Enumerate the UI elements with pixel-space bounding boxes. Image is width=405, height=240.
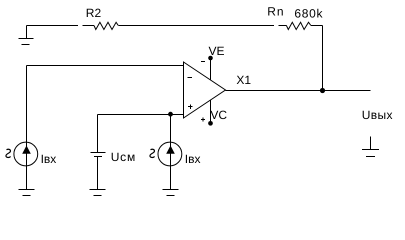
pin VC	[201, 100, 213, 126]
plus sign inside	[188, 106, 193, 108]
svg-text:X1: X1	[236, 73, 251, 87]
svg-text:VC: VC	[210, 108, 227, 122]
current source I2 (right Ivh)	[158, 115, 182, 167]
svg-text:R2: R2	[86, 6, 102, 20]
ground G5 (below I2)	[163, 166, 179, 196]
wire top rail left segment	[27, 25, 79, 27]
squiggle of I1	[6, 149, 11, 157]
wire top rail middle segment	[130, 25, 274, 27]
svg-text:Rn: Rn	[267, 4, 284, 18]
svg-text:Iвх: Iвх	[185, 152, 201, 166]
pin VE	[201, 56, 213, 80]
current source I1 (left Ivh)	[14, 142, 38, 166]
ground G2 (output reference)	[362, 137, 379, 157]
node output junction	[320, 88, 325, 93]
wire non-inverting input rail	[98, 114, 184, 116]
svg-text:VE: VE	[209, 44, 225, 58]
resistor Rn	[279, 22, 323, 29]
node junction on + rail	[168, 112, 173, 117]
svg-text:680k: 680k	[294, 7, 323, 21]
ground G1 (top left)	[19, 26, 34, 45]
svg-text:Iвх: Iвх	[41, 152, 57, 166]
ground G3 (below I1)	[19, 166, 35, 196]
svg-text:Uсм: Uсм	[111, 150, 136, 164]
wire Rn output drop	[322, 26, 324, 91]
squiggle of I2	[150, 149, 155, 157]
wire output rail	[226, 90, 371, 92]
minus sign inside	[188, 77, 192, 79]
resistor R2	[83, 22, 131, 29]
battery Ucm	[91, 115, 106, 190]
svg-text:Uвых: Uвых	[362, 108, 393, 122]
wire inverting input rail	[27, 65, 184, 67]
op-amp X1	[184, 62, 226, 118]
wire left branch vertical	[26, 66, 28, 143]
ground G4 (below Ucm)	[90, 190, 106, 196]
